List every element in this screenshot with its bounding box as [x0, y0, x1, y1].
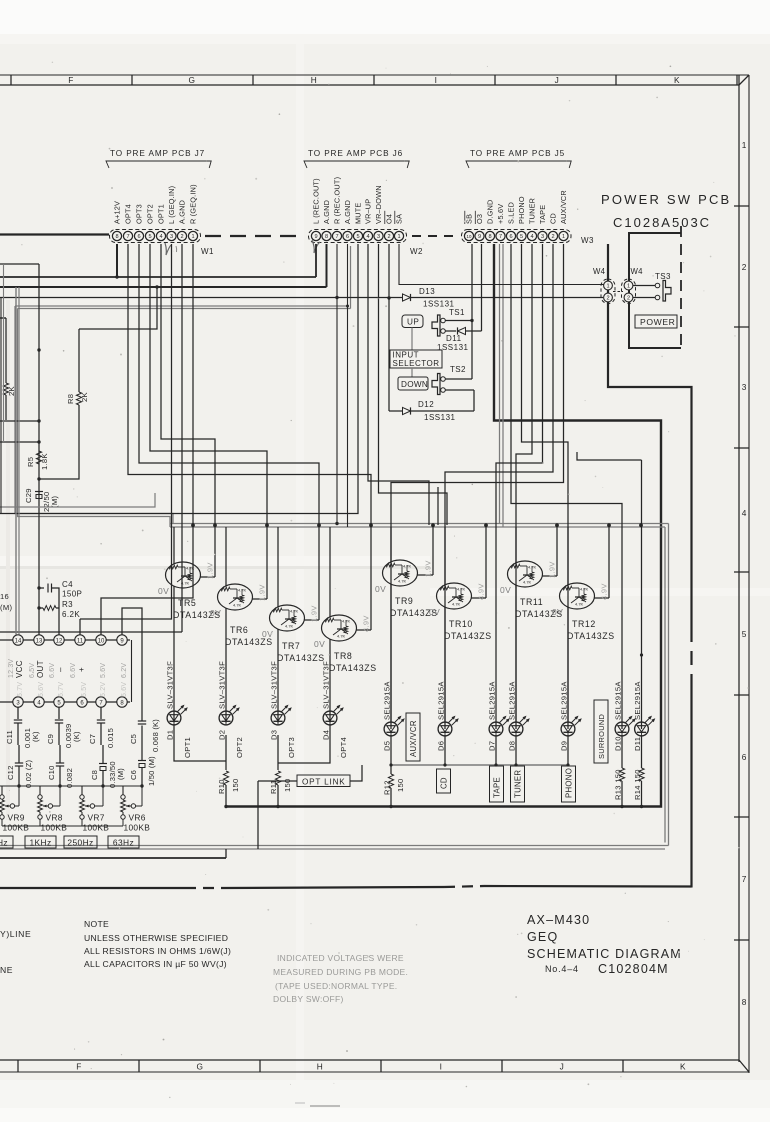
box frequency label Hz — [0, 836, 13, 848]
svg-text:150: 150 — [231, 778, 240, 792]
wire VR-UP fan — [368, 244, 429, 525]
svg-text:8: 8 — [488, 234, 491, 240]
svg-text:(K): (K) — [72, 731, 81, 742]
LED D10 — [614, 681, 636, 751]
svg-text:2: 2 — [742, 262, 747, 272]
capacitor C4 150P — [37, 580, 82, 599]
box frequency label 250Hz — [64, 836, 97, 848]
wire pin10 link — [100, 622, 102, 635]
box source label TUNER — [511, 766, 525, 802]
svg-text:4.7K: 4.7K — [523, 580, 532, 585]
LED D8 — [508, 681, 530, 751]
wire OPT1-OPT4 staircase from J7 — [128, 244, 371, 525]
svg-text:3: 3 — [377, 234, 380, 240]
svg-text:SEL2915A: SEL2915A — [508, 681, 517, 720]
svg-text:AX–M430: AX–M430 — [527, 913, 590, 927]
svg-text:C8: C8 — [90, 770, 99, 780]
svg-text:DTA143ZS: DTA143ZS — [329, 663, 377, 673]
svg-text:10: 10 — [98, 638, 105, 644]
svg-text:6.7V: 6.7V — [58, 682, 65, 697]
svg-text:SCHEMATIC DIAGRAM: SCHEMATIC DIAGRAM — [527, 947, 682, 961]
svg-text:C7: C7 — [88, 734, 97, 744]
svg-text:SLV–31VT3F: SLV–31VT3F — [270, 661, 279, 709]
svg-text:4.9V: 4.9V — [362, 615, 371, 632]
bus pair top edge of GEQ board — [0, 524, 669, 850]
svg-text:D11: D11 — [633, 737, 642, 751]
svg-text:OPT LINK: OPT LINK — [302, 778, 346, 787]
svg-text:SEL2915A: SEL2915A — [488, 681, 497, 720]
scan pen mark near J7 — [165, 243, 177, 255]
svg-text:SLV–31VT3F: SLV–31VT3F — [218, 661, 227, 709]
svg-text:5: 5 — [520, 234, 523, 240]
svg-text:1SS131: 1SS131 — [424, 413, 456, 422]
wire left edge lines y318 — [0, 317, 6, 319]
svg-text:3: 3 — [541, 234, 544, 240]
diode D11 1SS131 — [437, 327, 482, 352]
svg-text:6.6V: 6.6V — [49, 663, 56, 678]
svg-text:7: 7 — [126, 234, 129, 240]
wire TS2 common column — [446, 244, 473, 379]
capacitor C11 0.001 — [5, 708, 40, 749]
push-switch POWER label box — [635, 315, 677, 328]
svg-text:0V: 0V — [210, 608, 221, 618]
svg-text:SLV–31VT3F: SLV–31VT3F — [322, 661, 331, 709]
svg-text:8: 8 — [325, 234, 328, 240]
svg-text:C29: C29 — [24, 488, 33, 503]
push-switch DOWN — [398, 377, 428, 390]
svg-text:D3: D3 — [270, 730, 279, 740]
transistor TR7 DTA143ZS — [262, 525, 325, 723]
svg-text:L (GEQ.IN): L (GEQ.IN) — [167, 186, 176, 224]
svg-text:SEL2915A: SEL2915A — [383, 681, 392, 720]
svg-text:D2: D2 — [218, 730, 227, 740]
connector J7 — [106, 149, 214, 256]
svg-text:C1028A503C: C1028A503C — [613, 215, 711, 230]
svg-text:TAPE: TAPE — [493, 777, 502, 798]
box source label CD — [437, 769, 451, 793]
wire pin9 up and right — [122, 608, 142, 719]
svg-text:H: H — [317, 1062, 324, 1072]
potentiometer VR8 100KB — [38, 786, 68, 833]
svg-text:CD: CD — [440, 777, 449, 789]
svg-text:2K: 2K — [7, 386, 16, 396]
wire S.LED to surround columns — [511, 244, 622, 729]
wire pin14 bundle — [16, 287, 19, 635]
resistor R10 150 — [217, 771, 240, 808]
svg-text:SA: SA — [395, 214, 404, 224]
svg-text:C102804M: C102804M — [598, 962, 669, 976]
transistor TR8 DTA143ZS — [314, 525, 377, 723]
LED D2 — [218, 661, 244, 758]
LED D3 — [270, 661, 296, 758]
svg-text:0V: 0V — [552, 607, 563, 617]
svg-text:150: 150 — [396, 778, 405, 792]
capacitor C10 0.082 — [47, 745, 74, 788]
svg-text:O4: O4 — [385, 214, 394, 224]
svg-text:2K: 2K — [80, 392, 89, 402]
svg-text:5.5V: 5.5V — [81, 682, 88, 697]
svg-text:C5: C5 — [129, 734, 138, 744]
transistor TR9 DTA143ZS — [375, 525, 438, 723]
svg-text:NOTE: NOTE — [84, 919, 109, 929]
wire lower black line to tie — [0, 849, 226, 858]
svg-text:D13: D13 — [419, 287, 435, 296]
svg-text:D1: D1 — [166, 730, 175, 740]
svg-text:VR–UP: VR–UP — [364, 199, 373, 224]
svg-text:(M): (M) — [116, 768, 125, 780]
diode D12 1SS131 — [389, 400, 474, 422]
wire VR bottoms — [2, 825, 123, 827]
svg-text:13: 13 — [36, 638, 43, 644]
svg-text:1/50 (M): 1/50 (M) — [147, 756, 156, 786]
wire thick route to outer loop — [0, 244, 692, 888]
svg-text:J: J — [555, 75, 560, 85]
capacitor C29 22/50 (M) — [24, 488, 59, 512]
svg-text:K: K — [680, 1062, 686, 1072]
svg-text:9: 9 — [314, 234, 317, 240]
svg-text:11: 11 — [77, 638, 84, 644]
svg-text:150P: 150P — [62, 590, 82, 599]
svg-text:TO PRE AMP PCB J5: TO PRE AMP PCB J5 — [470, 149, 565, 158]
svg-text:D.GND: D.GND — [486, 199, 495, 224]
svg-text:+5.6V: +5.6V — [496, 204, 505, 224]
svg-text:0V: 0V — [314, 639, 325, 649]
svg-text:5.7V: 5.7V — [17, 682, 24, 697]
svg-text:1: 1 — [606, 284, 609, 290]
svg-text:VR9: VR9 — [8, 813, 25, 823]
svg-text:K: K — [674, 75, 680, 85]
scan pen mark near J6 — [312, 240, 320, 253]
wire bottom bus to VRs — [0, 784, 144, 787]
svg-text:R8: R8 — [66, 394, 75, 404]
svg-text:4: 4 — [530, 234, 533, 240]
svg-text:1.9V: 1.9V — [206, 562, 215, 579]
wire dashed bus between J7 and J6 — [0, 235, 305, 237]
svg-text:12: 12 — [56, 638, 63, 644]
svg-text:1KHz: 1KHz — [29, 838, 51, 848]
box OPT LINK — [297, 775, 350, 787]
connector J5 — [462, 149, 594, 245]
svg-text:C11: C11 — [5, 730, 14, 744]
svg-text:TR6: TR6 — [230, 625, 248, 635]
svg-text:1.9V: 1.9V — [310, 605, 319, 622]
svg-text:I: I — [440, 1062, 443, 1072]
wire supply pair gray (left segment) — [15, 246, 351, 527]
svg-text:8: 8 — [742, 997, 747, 1007]
svg-text:TR12: TR12 — [572, 619, 596, 629]
svg-text:AUX/VCR: AUX/VCR — [559, 190, 568, 224]
svg-text:S.LED: S.LED — [507, 202, 516, 224]
resistor R8 2K — [39, 285, 159, 479]
transistor TR6 DTA143ZS — [210, 525, 273, 723]
svg-text:63Hz: 63Hz — [113, 838, 134, 848]
svg-text:6: 6 — [742, 752, 747, 762]
capacitor C5 0.068 (K) — [129, 719, 160, 752]
text indicated voltages note (faint) — [273, 953, 408, 1004]
svg-text:PHONO: PHONO — [565, 768, 574, 798]
svg-text:G: G — [189, 75, 196, 85]
svg-text:(M): (M) — [50, 496, 59, 508]
push-switch UP — [402, 315, 423, 328]
svg-text:C12: C12 — [6, 765, 15, 780]
svg-text:10: 10 — [467, 234, 472, 239]
power sw pcb box outline — [629, 226, 681, 352]
svg-text:1.9V: 1.9V — [548, 561, 557, 578]
wire D1-D2 join to R10 — [174, 724, 226, 770]
svg-text:A.GND: A.GND — [343, 200, 352, 224]
svg-text:5.6V: 5.6V — [100, 663, 107, 678]
resistor R13 150 — [614, 735, 625, 808]
potentiometer VR7 100KB — [80, 786, 110, 833]
svg-text:C10: C10 — [47, 765, 56, 780]
wire O3 column to D11 — [481, 244, 483, 331]
svg-text:AUX/VCR: AUX/VCR — [409, 720, 418, 757]
wire UP to selector — [411, 328, 413, 351]
wire L(GEQ.IN) to IC pin 11 — [80, 244, 172, 619]
svg-text:5.6V: 5.6V — [38, 682, 45, 697]
svg-text:SEL2915A: SEL2915A — [560, 681, 569, 720]
svg-text:D9: D9 — [560, 741, 569, 751]
svg-text:5: 5 — [356, 234, 359, 240]
svg-text:4.7K: 4.7K — [575, 602, 584, 607]
svg-text:2: 2 — [606, 296, 609, 302]
svg-text:OPT2: OPT2 — [146, 204, 155, 224]
potentiometer VR9 100KB — [0, 786, 29, 833]
svg-text:GEQ: GEQ — [527, 930, 558, 944]
svg-text:R11: R11 — [269, 780, 278, 794]
svg-text:0V: 0V — [429, 607, 440, 617]
wire pin11 link — [79, 619, 81, 635]
svg-text:VR8: VR8 — [46, 813, 63, 823]
svg-text:R (REC.OUT): R (REC.OUT) — [333, 177, 342, 224]
svg-text:F: F — [76, 1062, 82, 1072]
svg-text:C6: C6 — [129, 770, 138, 780]
svg-text:0.068 (K): 0.068 (K) — [151, 719, 160, 752]
svg-text:0V: 0V — [158, 586, 169, 596]
text NOTE block — [84, 919, 231, 969]
svg-text:7: 7 — [742, 874, 747, 884]
svg-text:14: 14 — [15, 638, 22, 644]
LED D7 — [488, 681, 510, 751]
junction dots on top bus — [191, 523, 643, 527]
svg-text:F: F — [68, 75, 74, 85]
svg-text:7: 7 — [335, 234, 338, 240]
wire fan mid vertical — [437, 487, 439, 525]
svg-text:SURROUND: SURROUND — [597, 714, 606, 759]
switch TS2 — [432, 365, 466, 395]
svg-text:SEL2915A: SEL2915A — [614, 681, 623, 720]
wire surround second column — [577, 452, 642, 729]
svg-text:POWER SW PCB: POWER SW PCB — [601, 192, 731, 207]
svg-text:OPT1: OPT1 — [183, 737, 192, 758]
wire D3-D4 join to R11 — [278, 724, 330, 770]
svg-text:(TAPE USED:NORMAL TYPE.: (TAPE USED:NORMAL TYPE. — [275, 981, 397, 991]
wire A.GND J6 pin6 — [346, 244, 349, 527]
svg-text:4.7K: 4.7K — [452, 602, 461, 607]
svg-text:CD: CD — [549, 213, 558, 224]
svg-text:DTA143ZS: DTA143ZS — [444, 631, 492, 641]
svg-text:250Hz: 250Hz — [67, 838, 93, 848]
svg-text:6: 6 — [346, 234, 349, 240]
svg-text:(M): (M) — [0, 603, 12, 612]
svg-text:TS3: TS3 — [655, 272, 671, 281]
wire PHONO fan — [522, 244, 569, 729]
wire pin13 feeders — [0, 264, 39, 442]
svg-text:Y)LINE: Y)LINE — [0, 929, 31, 939]
svg-text:3: 3 — [742, 382, 747, 392]
svg-text:TR11: TR11 — [520, 597, 543, 607]
svg-text:100KB: 100KB — [83, 823, 110, 833]
svg-text:TUNER: TUNER — [528, 198, 537, 224]
svg-text:6: 6 — [137, 234, 140, 240]
svg-text:W4: W4 — [631, 267, 644, 276]
svg-text:1: 1 — [627, 284, 630, 290]
capacitor C8 0.33/50 — [90, 745, 125, 788]
svg-text:TS1: TS1 — [449, 308, 465, 317]
svg-text:R5: R5 — [26, 457, 35, 467]
resistor R14 150 — [633, 653, 644, 808]
svg-text:NE: NE — [0, 965, 13, 975]
svg-text:OPT2: OPT2 — [235, 737, 244, 758]
svg-text:3: 3 — [170, 234, 173, 240]
wire VR-DOWN fan — [379, 244, 448, 525]
svg-text:6.2V: 6.2V — [121, 663, 128, 678]
wire TUNER fan — [516, 244, 532, 729]
svg-text:OPT1: OPT1 — [157, 204, 166, 224]
svg-text:0.082: 0.082 — [65, 768, 74, 788]
svg-text:1: 1 — [397, 234, 400, 240]
LED D9 — [560, 681, 582, 751]
svg-text:6: 6 — [509, 234, 512, 240]
svg-text:TR10: TR10 — [449, 619, 473, 629]
box frequency label 63Hz — [108, 836, 139, 848]
svg-text:TUNER: TUNER — [514, 770, 523, 798]
svg-text:No.4–4: No.4–4 — [545, 964, 579, 974]
wire A.GND J7 down — [0, 244, 182, 632]
svg-text:DTA143ZS: DTA143ZS — [567, 631, 615, 641]
svg-text:16: 16 — [0, 592, 9, 601]
wire A.GND J6 thick — [0, 244, 327, 287]
svg-text:POWER: POWER — [640, 317, 675, 327]
wire SA to W4 pin1 — [399, 244, 604, 285]
svg-text:MUTE: MUTE — [354, 203, 363, 224]
svg-text:4.7K: 4.7K — [337, 634, 346, 639]
scan artifact dashes — [295, 1103, 340, 1106]
svg-text:DOLBY SW:OFF): DOLBY SW:OFF) — [273, 994, 344, 1004]
svg-text:5.6V: 5.6V — [121, 682, 128, 697]
resistor R3 6.2K — [37, 600, 80, 619]
svg-text:OPT4: OPT4 — [339, 737, 348, 758]
svg-text:TS2: TS2 — [450, 365, 466, 374]
svg-text:TR8: TR8 — [334, 651, 352, 661]
LED return bus gray — [389, 735, 569, 767]
svg-text:1.9V: 1.9V — [258, 584, 267, 601]
capacitor C9 0.0039 — [46, 708, 81, 749]
box frequency label 1KHz — [25, 836, 56, 848]
svg-text:INDICATED VOLTAGES WERE: INDICATED VOLTAGES WERE — [277, 953, 404, 963]
svg-text:1: 1 — [562, 234, 565, 240]
box source label TAPE — [490, 766, 504, 802]
svg-text:1: 1 — [742, 140, 747, 150]
svg-text:–: – — [56, 667, 65, 672]
resistor R9 2K (cut at edge) — [0, 318, 16, 420]
transistor TR12 DTA143ZS — [552, 525, 615, 723]
transistor TR10 DTA143ZS — [429, 525, 492, 723]
box source label AUX/VCR — [406, 713, 420, 761]
wire W4 link dashes — [613, 291, 623, 293]
svg-text:A+12V: A+12V — [113, 201, 122, 224]
svg-text:D10: D10 — [614, 736, 623, 751]
wire CD fan — [445, 244, 553, 729]
wire TS1 top to SB column — [446, 319, 474, 322]
resistor R11 150 — [269, 771, 292, 808]
svg-text:TO PRE AMP PCB J7: TO PRE AMP PCB J7 — [110, 149, 205, 158]
svg-text:UP: UP — [407, 318, 419, 327]
svg-text:R10: R10 — [217, 779, 226, 794]
svg-text:ALL RESISTORS IN OHMS 1/6W(J): ALL RESISTORS IN OHMS 1/6W(J) — [84, 946, 231, 956]
potentiometer VR6 100KB — [121, 786, 151, 833]
capacitor C12 0.02 (Z) — [6, 745, 33, 788]
wire TAPE fan — [496, 244, 543, 729]
wire supply pair gray (J5 columns) — [500, 244, 504, 527]
svg-text:OUT: OUT — [36, 660, 45, 678]
wire O4 column through D13 to D12 — [388, 244, 390, 411]
svg-text:SEL2915A: SEL2915A — [437, 681, 446, 720]
svg-text:I: I — [435, 75, 438, 85]
LED D5 — [383, 681, 405, 751]
svg-text:C4: C4 — [62, 580, 73, 589]
svg-text:A.GND: A.GND — [322, 200, 331, 224]
transistor TR11 DTA143ZS — [500, 525, 563, 723]
svg-text:G: G — [197, 1062, 204, 1072]
svg-text:D11: D11 — [446, 334, 462, 343]
wire thick route D.GND to LED return bus — [226, 244, 661, 807]
resistor R12 150 — [383, 765, 406, 808]
svg-text:4: 4 — [366, 234, 369, 240]
svg-text:6.6V: 6.6V — [70, 663, 77, 678]
svg-text:2: 2 — [627, 296, 630, 302]
text left cut labels — [0, 929, 31, 975]
svg-text:W1: W1 — [201, 247, 214, 256]
svg-text:DOWN: DOWN — [401, 380, 428, 389]
svg-text:4.7K: 4.7K — [181, 581, 190, 586]
svg-text:2: 2 — [180, 234, 183, 240]
svg-text:0V: 0V — [500, 585, 511, 595]
connector J6 — [304, 149, 423, 256]
wire C4/R3 to pin 12 — [57, 588, 59, 635]
svg-text:100KB: 100KB — [41, 823, 68, 833]
svg-text:R14 150: R14 150 — [633, 769, 642, 800]
svg-text:(K): (K) — [31, 731, 40, 742]
svg-text:VR7: VR7 — [88, 813, 105, 823]
svg-text:W4: W4 — [593, 267, 606, 276]
svg-text:UNLESS OTHERWISE SPECIFIED: UNLESS OTHERWISE SPECIFIED — [84, 933, 228, 943]
svg-text:L (REC.OUT): L (REC.OUT) — [312, 178, 321, 224]
svg-text:ALL CAPACITORS IN µF 50 WV(J): ALL CAPACITORS IN µF 50 WV(J) — [84, 959, 227, 969]
svg-text:4.7K: 4.7K — [285, 624, 294, 629]
LED D1 — [166, 661, 192, 758]
svg-text:SELECTOR: SELECTOR — [393, 359, 440, 368]
box source label PHONO — [562, 766, 576, 802]
svg-text:PHONO: PHONO — [517, 196, 526, 224]
text title block — [527, 913, 682, 976]
svg-text:R13 150: R13 150 — [614, 769, 623, 800]
wire OPT-link column — [258, 765, 362, 849]
svg-text:1.8K: 1.8K — [40, 453, 49, 470]
svg-text:7: 7 — [499, 234, 502, 240]
svg-text:C9: C9 — [46, 734, 55, 744]
svg-text:VR–DOWN: VR–DOWN — [374, 185, 383, 224]
